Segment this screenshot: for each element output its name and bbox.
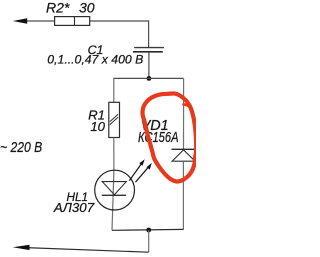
wire: bottom lead horizontal xyxy=(26,248,149,253)
wire: top input lead xyxy=(25,20,55,22)
capacitor C1 xyxy=(133,48,164,52)
wire: R1 to LED xyxy=(113,138,115,172)
wire: bottom connector xyxy=(112,228,183,231)
node: junction dot bottom xyxy=(146,228,151,233)
wire: right branch down to zener xyxy=(183,78,185,149)
arrow: bottom-left terminal xyxy=(13,245,30,250)
svg-text:10: 10 xyxy=(90,119,105,134)
svg-text:0,1...0,47 x 400 В: 0,1...0,47 x 400 В xyxy=(47,52,143,66)
wire: down to capacitor xyxy=(148,20,150,47)
wire: capacitor to junction xyxy=(148,52,150,78)
wire: through LED down to bottom corner xyxy=(112,171,114,230)
label R1 10 xyxy=(88,108,106,134)
node: junction dot top xyxy=(147,76,152,81)
resistor R2 xyxy=(55,17,90,26)
svg-text:КС156А: КС156А xyxy=(138,130,179,146)
label ~220 В xyxy=(0,139,42,156)
wire: zener to bottom corner xyxy=(182,161,184,229)
svg-text:R2*: R2* xyxy=(46,0,70,16)
LED HL1 xyxy=(95,170,135,210)
label R2* 30 xyxy=(46,0,95,16)
red annotation loop around VD1 xyxy=(143,93,197,181)
red loop pen tail xyxy=(184,105,192,109)
wire: R2 to top corner xyxy=(90,20,149,22)
wire: horizontal splitter xyxy=(114,77,184,79)
LED arrow 1 xyxy=(129,159,144,181)
svg-text:АЛ307: АЛ307 xyxy=(53,201,95,215)
wire: down to R1 xyxy=(113,78,115,103)
svg-text:30: 30 xyxy=(79,0,95,16)
resistor R1 xyxy=(109,102,120,137)
svg-text:~ 220 В: ~ 220 В xyxy=(0,139,42,156)
LED arrow 2 xyxy=(136,163,152,182)
arrow: top-left input terminal xyxy=(13,18,27,24)
wire: bottom lead down xyxy=(148,230,150,252)
zener diode VD1 xyxy=(172,149,196,161)
